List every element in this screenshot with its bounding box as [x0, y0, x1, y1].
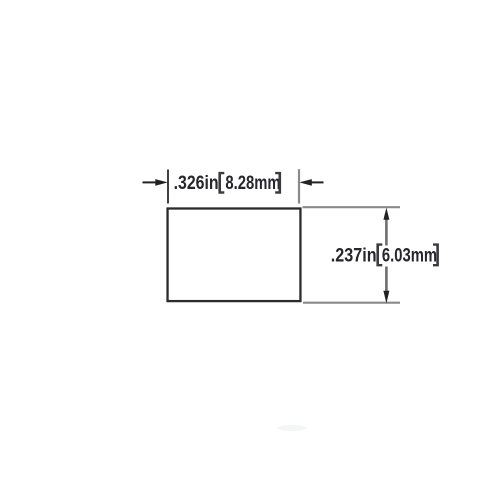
- height dimension line upper segment: [385, 218, 388, 246]
- extension line left (width dim): [167, 170, 169, 204]
- faint artifact smudge: [278, 425, 306, 431]
- part outline rectangle: [168, 209, 301, 302]
- arrow down (height dim): [383, 291, 389, 304]
- extension line top (height dim): [303, 206, 401, 208]
- svg-text:.237in: .237in: [331, 244, 377, 266]
- extension line bottom (height dim): [303, 302, 400, 304]
- dimension leader right with arrow: [299, 179, 323, 186]
- width dimension label .326in[8.28mm]: [174, 171, 282, 193]
- extension line right (width dim): [298, 169, 300, 203]
- height dimension line lower segment: [385, 267, 388, 293]
- svg-text:6.03mm: 6.03mm: [382, 245, 437, 266]
- svg-text:8.28mm: 8.28mm: [225, 172, 280, 193]
- dimension leader left with arrow: [143, 179, 168, 186]
- height dimension label .237in[6.03mm]: [331, 243, 439, 266]
- svg-text:.326in: .326in: [174, 171, 219, 193]
- arrow up (height dim): [383, 208, 389, 220]
